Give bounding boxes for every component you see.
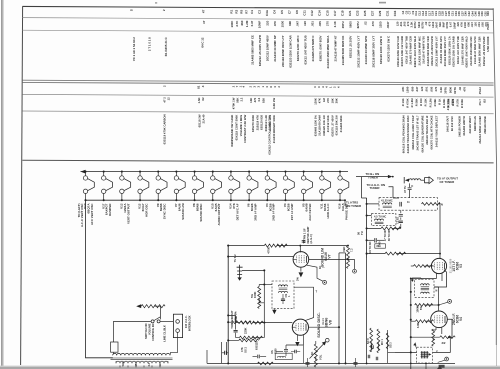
stray marks above frame: [155, 2, 157, 3]
svg-text:R 470K: R 470K: [406, 98, 410, 107]
gnd arrow above 3rd IF: [413, 342, 416, 346]
wire y352 mid: [388, 351, 395, 353]
svg-text:.001: .001: [311, 21, 315, 27]
svg-text:R 330K: R 330K: [460, 99, 464, 108]
svg-text:39 TU NC: 39 TU NC: [387, 229, 391, 241]
cap on bus: [225, 351, 227, 355]
svg-text:63X118 39K 2W: 63X118 39K 2W: [335, 115, 339, 135]
svg-text:INTERLOCK: INTERLOCK: [187, 315, 191, 331]
IF transformer T2 dashed box: [415, 280, 434, 298]
svg-text:SOUND DISC.: SOUND DISC.: [316, 312, 321, 338]
svg-text:C31: C31: [386, 10, 390, 16]
heater bottom rail: [86, 199, 346, 201]
B+ stub to tuner: [356, 176, 389, 178]
heater of tube V13 6CG7: [138, 171, 149, 202]
wire box left connections: [264, 284, 272, 286]
3rd IF transformer dashed box: [417, 347, 433, 363]
svg-text:C: C: [411, 184, 413, 188]
svg-text:21A118 47 MMF N750: 21A118 47 MMF N750: [422, 36, 426, 64]
label V10 6BQ7A: [83, 203, 94, 225]
svg-text:63S212 .25 200V: 63S212 .25 200V: [349, 36, 353, 58]
svg-text:5U4: 5U4: [122, 361, 125, 366]
resistor V4 grid: [416, 320, 434, 323]
svg-text:3.9K: 3.9K: [416, 322, 420, 328]
svg-text:SYNC DISC: SYNC DISC: [163, 203, 167, 220]
tube V7 6AU6 SOUND LIM: [293, 246, 309, 268]
svg-text:66A120 COIL QUADRATURE: 66A120 COIL QUADRATURE: [420, 115, 424, 152]
wire box right to V8: [294, 287, 314, 320]
svg-text:USE CODE: USE CODE: [486, 36, 490, 51]
svg-text:.0047: .0047: [386, 21, 390, 29]
svg-text:1500: 1500: [463, 21, 467, 28]
svg-text:R7: R7: [245, 10, 249, 14]
svg-text:63S118 470K CARBON: 63S118 470K CARBON: [163, 114, 167, 144]
svg-text:TU: TU: [360, 231, 364, 235]
table line row4/row5: [22, 94, 493, 97]
heater of tube V3 6CB6: [283, 171, 294, 202]
svg-text:C2: C2: [257, 10, 261, 14]
svg-text:OF TUNER: OF TUNER: [440, 180, 456, 184]
tone circuit resistor 1: [228, 321, 231, 323]
wire vertical x345: [345, 253, 347, 364]
svg-text:R 120K: R 120K: [442, 99, 446, 108]
svg-text:.005: .005: [481, 22, 485, 28]
svg-text:100K: 100K: [230, 20, 234, 28]
svg-text:.02: .02: [424, 21, 428, 25]
svg-text:63X270 120K 1W CARB: 63X270 120K 1W CARB: [452, 36, 456, 66]
label V12 12B4A: [119, 203, 130, 224]
svg-text:56K: 56K: [438, 22, 442, 27]
svg-text:R 2.2M: R 2.2M: [428, 98, 432, 108]
svg-text:TU 8.2: TU 8.2: [233, 254, 237, 262]
svg-text:47K 10%: 47K 10%: [446, 98, 450, 110]
svg-text:47K: 47K: [240, 347, 244, 352]
heater of tube V15 6AQ5: [211, 171, 222, 202]
svg-text:8MF: 8MF: [442, 21, 446, 27]
svg-text:350: 350: [135, 362, 138, 367]
svg-text:5%: 5%: [250, 294, 254, 298]
svg-text:25A212 SPKR 4 OHM: 25A212 SPKR 4 OHM: [478, 115, 482, 143]
svg-text:120: 120: [396, 21, 400, 26]
V8 grid cap left: [228, 315, 235, 329]
svg-text:21A465 270 MMF CER: 21A465 270 MMF CER: [409, 36, 413, 65]
svg-text:10MF: 10MF: [452, 22, 456, 29]
svg-text:.047: .047: [470, 22, 474, 28]
de-emphasis box with coil: [275, 353, 292, 359]
resistor lower left: [239, 336, 262, 339]
svg-text:R3: R3: [235, 9, 239, 13]
svg-text:21A118 68 OHM: 21A118 68 OHM: [318, 114, 322, 135]
table line row5/row6: [22, 111, 493, 114]
svg-text:1500: 1500: [406, 86, 410, 93]
capacitor C coupling: [408, 188, 412, 190]
svg-text:C12: C12: [310, 10, 314, 16]
svg-text:47 TU NC: 47 TU NC: [383, 229, 387, 241]
svg-text:.001: .001: [477, 22, 481, 28]
svg-text:66 212 OSC: 66 212 OSC: [450, 116, 454, 131]
parts list row 2 text: [202, 20, 490, 30]
resistor 100K grid: [258, 286, 261, 308]
label V7 6AU6: [174, 203, 185, 220]
svg-text:2ND I.F.: 2ND I.F.: [452, 313, 456, 325]
V8 input resistor 220K: [236, 322, 240, 324]
svg-text:21A465 5600 MMF CE: 21A465 5600 MMF CE: [251, 35, 255, 65]
svg-text:82K: 82K: [261, 98, 265, 103]
on-off switch: [113, 320, 150, 322]
svg-text:470K: 470K: [267, 247, 271, 254]
V8 output network: [286, 345, 303, 349]
svg-text:3.9 TU NC: 3.9 TU NC: [368, 241, 372, 253]
svg-text:OS: OS: [271, 350, 274, 354]
screen bypass stack: [237, 265, 243, 281]
svg-text:3.3K: 3.3K: [439, 87, 443, 93]
svg-text:A-F-C VERT OSC: A-F-C VERT OSC: [80, 203, 84, 227]
svg-text:VOLUME: VOLUME: [147, 323, 151, 335]
svg-text:66A118 COIL PEAKING 36UH: 66A118 COIL PEAKING 36UH: [402, 115, 406, 153]
svg-text:AGC KEYER: AGC KEYER: [308, 203, 312, 221]
network resistor row1: [381, 227, 401, 230]
svg-text:1200: 1200: [431, 21, 435, 28]
resistor bottom right: [411, 336, 440, 338]
svg-text:7.2: 7.2: [351, 248, 354, 252]
AGC stub label: [303, 240, 305, 244]
V7 screen wire down right: [307, 265, 323, 281]
svg-text:63S120 220K 1/2W CAR: 63S120 220K 1/2W CAR: [396, 36, 400, 67]
svg-text:VOL: VOL: [319, 354, 323, 360]
cap small left of box: [258, 355, 260, 359]
svg-text:21A118 47 MMF N7: 21A118 47 MMF N7: [334, 35, 338, 61]
svg-text:220: 220: [456, 21, 460, 26]
heater of tube V9 6BN6: [156, 171, 167, 202]
svg-text:66B330 LIN: 66B330 LIN: [473, 116, 477, 131]
svg-text:63X270 120K 1W C: 63X270 120K 1W C: [296, 34, 300, 61]
svg-text:47K: 47K: [273, 20, 277, 26]
tone circuit resistor 2: [228, 339, 239, 341]
svg-text:N: N: [441, 203, 443, 207]
svg-text:3.3K: 3.3K: [410, 22, 414, 28]
test point circle TP1: [323, 281, 327, 285]
V3 grid return: [425, 265, 432, 267]
caps crossing bus: [306, 363, 310, 365]
V3 plate to T2: [434, 270, 447, 287]
svg-text:20C118 80MF 350V LYT: 20C118 80MF 350V LYT: [443, 36, 447, 67]
svg-text:R 1K: R 1K: [437, 99, 441, 105]
svg-text:C5: C5: [280, 10, 284, 14]
parts list row 5 text: [163, 96, 487, 110]
svg-text:24B120 POWER: 24B120 POWER: [458, 116, 462, 137]
svg-text:4.5 TU NC: 4.5 TU NC: [374, 215, 386, 219]
svg-text:63S120 220K 1/2W CA: 63S120 220K 1/2W CA: [447, 36, 451, 65]
svg-text:.02: .02: [458, 86, 462, 90]
svg-text:CONTRAST 2.5K WW: CONTRAST 2.5K WW: [243, 114, 247, 143]
resistors lower right pair: [370, 328, 373, 352]
svg-text:39TU: 39TU: [444, 87, 448, 94]
svg-text:OS 3: OS 3: [390, 342, 393, 348]
svg-text:R 1.8M: R 1.8M: [410, 98, 414, 108]
svg-text:82TU: 82TU: [453, 87, 457, 94]
svg-text:24A118 OUT: 24A118 OUT: [446, 116, 450, 132]
svg-text:V3: V3: [459, 264, 463, 268]
T2 gnd arrow: [411, 280, 414, 282]
svg-text:21A330 33 MMF NP: 21A330 33 MMF NP: [273, 35, 277, 61]
svg-text:81: 81: [197, 85, 201, 89]
svg-text:R1: R1: [230, 9, 234, 13]
caps cluster bottom: [368, 355, 370, 359]
network caps row2: [367, 239, 374, 241]
svg-text:63S466 1500 5%: 63S466 1500 5%: [314, 115, 318, 137]
svg-text:25B118 FUSE: 25B118 FUSE: [483, 116, 487, 134]
bottom bus wire: [207, 362, 455, 364]
label V16 6AL5: [338, 203, 349, 220]
wire bus right segment: [395, 351, 417, 353]
AGC stub to tuner: [389, 187, 394, 198]
svg-text:R 330: R 330: [419, 98, 423, 106]
svg-text:TONE CIRCUIT: TONE CIRCUIT: [230, 310, 234, 329]
svg-text:R 56K: R 56K: [415, 98, 419, 106]
wire IF network left rail: [366, 198, 368, 258]
svg-text:31,161 9829: 31,161 9829: [448, 258, 452, 273]
svg-text:C33: C33: [393, 10, 397, 16]
svg-text:24C465 TRANS 1ST IF 45.7: 24C465 TRANS 1ST IF 45.7: [416, 115, 420, 150]
T2 primary: [421, 284, 430, 285]
trap coil dashed box 4.5MC: [372, 214, 396, 226]
svg-text:PG 7: PG 7: [478, 99, 482, 106]
IF transformer T1 dashed box 45.75MC: [379, 198, 437, 211]
svg-text:21A118 47 MMF N750: 21A118 47 MMF N750: [473, 36, 477, 64]
svg-text:C15: C15: [325, 10, 329, 16]
parts list row 6 text: [163, 114, 487, 156]
svg-text:B1 R405 21 C: B1 R405 21 C: [164, 36, 168, 56]
wire V8 plate right: [309, 326, 340, 328]
svg-text:0.47: 0.47: [250, 20, 254, 26]
scan edge bottom gray strip: [0, 367, 500, 369]
wire switch line down: [112, 321, 114, 342]
svg-text:5600: 5600: [449, 86, 453, 93]
wire vertical x366 lower: [366, 258, 368, 363]
svg-text:C7: C7: [288, 10, 292, 14]
svg-text:21A330 33 MMF NPO: 21A330 33 MMF NPO: [439, 35, 443, 63]
svg-text:220: 220: [265, 20, 269, 25]
svg-text:HOR A-F-C: HOR A-F-C: [326, 203, 330, 219]
svg-text:C23: C23: [356, 10, 360, 16]
svg-text:9E29: 9E29: [321, 318, 325, 325]
volume control pot: [310, 338, 330, 367]
svg-text:5600: 5600: [417, 21, 421, 28]
svg-text:21A465 5600 MMF CER: 21A465 5600 MMF CER: [478, 36, 482, 66]
svg-text:220K: 220K: [244, 328, 248, 334]
wire box bottom down: [425, 363, 427, 369]
svg-text:47K: 47K: [401, 87, 405, 92]
label V5 6AM8: [301, 203, 312, 221]
svg-text:120: 120: [303, 21, 307, 26]
svg-text:64 C 12: 64 C 12: [201, 37, 205, 48]
test point circle bottom right: [445, 357, 449, 361]
svg-text:21A330 33 MMF NPO: 21A330 33 MMF NPO: [364, 35, 368, 64]
svg-text:C2 82: C2 82: [396, 217, 400, 224]
svg-text:V4: V4: [459, 317, 463, 321]
svg-text:82TU: 82TU: [356, 21, 360, 28]
svg-text:C27: C27: [371, 10, 375, 16]
svg-text:DAMPER: DAMPER: [108, 203, 112, 216]
svg-text:C17: C17: [333, 10, 337, 16]
svg-text:1500: 1500: [280, 21, 284, 28]
svg-text:10MF: 10MF: [258, 21, 262, 29]
wire B+ rail y245: [228, 245, 264, 247]
svg-text:PG12: PG12: [478, 87, 482, 95]
quad coil winding: [279, 285, 288, 287]
svg-text:AUDIO OUTPUT: AUDIO OUTPUT: [217, 203, 221, 225]
svg-text:2ND I-F AMP: 2ND I-F AMP: [272, 203, 276, 220]
svg-text:SOUND DISC: SOUND DISC: [199, 203, 203, 222]
T1 trimmer cap: [400, 202, 402, 207]
svg-text:0.47: 0.47: [449, 21, 453, 27]
label V15 6AQ5: [210, 203, 221, 225]
svg-text:CONTROL R4: CONTROL R4: [151, 323, 155, 341]
label V13 6CG7: [138, 203, 149, 217]
svg-text:LINE CL.BLK: LINE CL.BLK: [163, 325, 167, 342]
svg-text:63X12 .047 400V TUB: 63X12 .047 400V TUB: [404, 36, 408, 64]
svg-text:5600: 5600: [348, 21, 352, 28]
wire vertical x339: [338, 253, 340, 364]
quadrature coil dashed box: [272, 281, 294, 309]
svg-text:21A465 5600 MMF CER: 21A465 5600 MMF CER: [426, 36, 430, 66]
heater of tube V10 6BQ7A: [83, 171, 94, 202]
heater of tube V6 6CB6: [247, 171, 258, 202]
heater of tube V17 6AX4GT: [101, 171, 112, 202]
svg-text:82TU: 82TU: [420, 22, 424, 29]
wire connector down: [409, 183, 411, 198]
svg-text:R 10K: R 10K: [401, 98, 405, 106]
svg-text:21C212 150K: 21C212 150K: [326, 115, 330, 132]
label V7 6AU6 SOUND LIM: [320, 248, 331, 267]
svg-text:C21: C21: [348, 10, 352, 16]
svg-text:3.3K: 3.3K: [333, 20, 337, 27]
svg-text:66B212 COIL 4.5MC TRAP: 66B212 COIL 4.5MC TRAP: [411, 115, 415, 149]
svg-text:47K: 47K: [459, 22, 463, 27]
label V4 6CB6: [265, 203, 276, 221]
resistor v x387: [387, 330, 389, 363]
svg-text:.047: .047: [415, 86, 419, 92]
svg-text:20C212 10MF 450V LYT: 20C212 10MF 450V LYT: [435, 36, 439, 67]
V7 cathode arrow: [300, 267, 302, 271]
heater of tube V16 6AL5: [338, 171, 349, 202]
wire left rail joins boxes: [362, 198, 400, 216]
label V3 6CB6: [283, 203, 294, 220]
svg-text:C14: C14: [318, 10, 322, 16]
test point circle plate: [354, 259, 356, 269]
svg-text:41.25 MC: 41.25 MC: [381, 198, 393, 202]
svg-text:66X270 COIL HTR CHOKE: 66X270 COIL HTR CHOKE: [430, 115, 434, 149]
grid resistor 1st IF: [385, 252, 406, 255]
parts list row 1 text: [130, 8, 490, 17]
svg-text:C9: C9: [295, 10, 299, 14]
svg-text:21A330 1500 MMF MIC: 21A330 1500 MMF MIC: [469, 36, 473, 65]
svg-text:TUNER: TUNER: [370, 186, 381, 190]
svg-text:.001: .001: [399, 21, 403, 27]
label 56 TU: [357, 231, 365, 235]
T2 out to V4 grid: [434, 287, 439, 310]
table bottom border: [22, 160, 493, 163]
svg-text:120: 120: [474, 22, 478, 27]
bus left vertical: [206, 350, 208, 363]
svg-text:680: 680: [411, 86, 415, 91]
svg-text:1ST I-F AMP: 1ST I-F AMP: [290, 203, 294, 220]
svg-text:2 T 1 0 1 8: 2 T 1 0 1 8: [148, 37, 152, 51]
cap V8 area extra: [295, 350, 297, 354]
svg-text:HOR OSC: HOR OSC: [144, 203, 148, 217]
tube V8 6BN6 SOUND DISC: [292, 319, 308, 335]
heater of tube V12 12B4A: [120, 171, 131, 202]
svg-text:1T: 1T: [202, 20, 206, 24]
V4 cathode resistor: [436, 327, 442, 334]
svg-text:.0047: .0047: [435, 21, 439, 28]
svg-text:4.7K: 4.7K: [235, 20, 239, 27]
label SWITCH ON VOLUME CONTROL: [144, 323, 155, 341]
label V6 6CB6: [247, 203, 258, 221]
svg-text:R 68K: R 68K: [433, 99, 437, 107]
svg-text:C3A: C3A: [265, 9, 269, 16]
svg-text:63S120 220K 1/2W C: 63S120 220K 1/2W C: [379, 35, 383, 64]
transformer winding labels: [122, 361, 162, 366]
label TO IF OUTPUT OF TUNER: [437, 176, 458, 183]
svg-text:63X212 CONTROL 2 MEG TON: 63X212 CONTROL 2 MEG TON: [268, 115, 272, 155]
svg-text:63X270 120K 1W CARB: 63X270 120K 1W CARB: [400, 36, 404, 66]
label V8 6BN6 SOUND DISC: [316, 312, 332, 338]
bus resistor: [258, 362, 274, 365]
pin text V7: [318, 266, 326, 269]
svg-text:21A465 270 MMF CER: 21A465 270 MMF CER: [460, 36, 464, 65]
svg-text:47 TU: 47 TU: [403, 186, 407, 193]
svg-text:21A465 820K: 21A465 820K: [339, 115, 343, 132]
svg-text:6.8K 2W: 6.8K 2W: [272, 97, 276, 108]
svg-text:470: 470: [371, 21, 375, 26]
svg-text:C19: C19: [340, 10, 344, 16]
label 115V AC INTERLOCK: [184, 315, 192, 331]
svg-text:S: S: [130, 9, 134, 11]
svg-text:470: 470: [427, 21, 431, 26]
frame right border: [493, 8, 496, 345]
svg-text:.047: .047: [296, 21, 300, 27]
test point TP2: [439, 302, 448, 305]
svg-text:.005: .005: [318, 21, 322, 27]
svg-text:117: 117: [159, 362, 162, 367]
svg-text:24A212 YOKE DEFLECT: 24A212 YOKE DEFLECT: [434, 115, 438, 147]
quad coil cap: [281, 299, 285, 301]
svg-text:470: 470: [463, 86, 467, 91]
svg-text:66A465 WIDTH: 66A465 WIDTH: [462, 116, 466, 135]
svg-text:2.2: 2.2: [240, 97, 244, 101]
svg-text:24X118 VERT: 24X118 VERT: [468, 116, 472, 134]
frame top border: [22, 6, 493, 9]
svg-text:270: 270: [434, 86, 438, 91]
svg-text:DET AVC AF: DET AVC AF: [235, 203, 239, 220]
svg-text:C25: C25: [363, 10, 367, 16]
svg-text:OS 2: OS 2: [244, 347, 248, 353]
svg-text:20C118 80MF 350V LYT: 20C118 80MF 350V LYT: [371, 36, 375, 68]
label V8 6BN6: [192, 203, 203, 222]
heater of tube V4 6CB6: [265, 171, 276, 202]
svg-text:21A 40: 21A 40: [202, 114, 206, 123]
svg-text:MC 1: MC 1: [381, 338, 384, 345]
wire grid node down: [263, 270, 265, 322]
svg-text:VC 1 A8 1 S1 64 2: VC 1 A8 1 S1 64 2: [132, 37, 136, 61]
scan edge left gray strip: [1, 0, 3, 369]
svg-text:TUNER: TUNER: [368, 176, 379, 180]
heater of tube V14 6T8: [229, 171, 240, 202]
svg-text:63X270 120K 1W C: 63X270 120K 1W C: [387, 35, 391, 62]
svg-text:63S212 .25 200V PAPR: 63S212 .25 200V PAPR: [258, 34, 262, 66]
wire jog joining verticals: [339, 252, 346, 254]
